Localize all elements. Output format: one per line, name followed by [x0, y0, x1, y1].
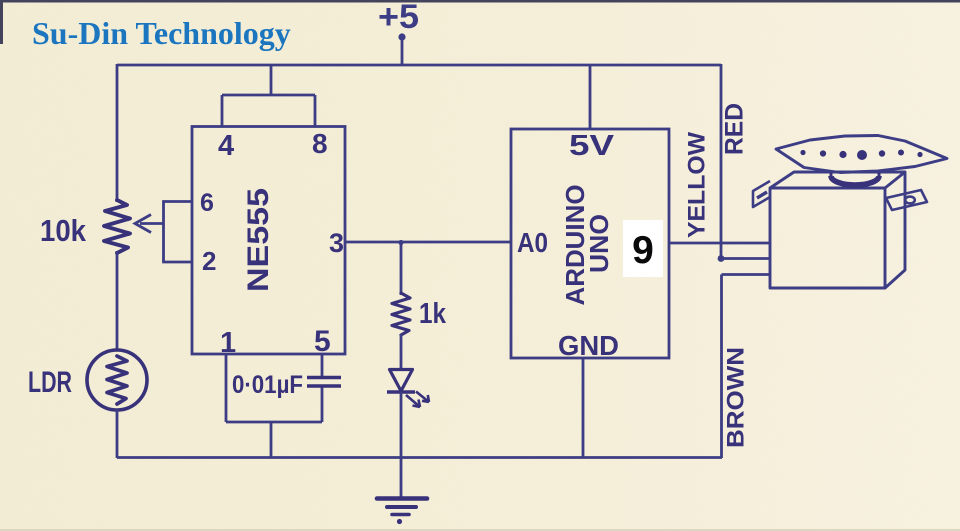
wire pin 1 and pin 5 to capacitor	[226, 354, 322, 422]
wire RED +5 drop	[721, 64, 771, 259]
svg-text:10k: 10k	[40, 213, 87, 248]
servo horn holes	[800, 150, 922, 161]
svg-text:YELLOW: YELLOW	[683, 132, 710, 238]
potentiometer 10k	[104, 200, 130, 253]
svg-text:+5: +5	[378, 0, 419, 36]
svg-text:5V: 5V	[569, 130, 615, 162]
svg-text:LDR: LDR	[28, 366, 72, 399]
servo mounting tab right	[886, 190, 927, 210]
wire pin 3 to A0	[345, 241, 511, 244]
servo mounting tab left	[753, 181, 770, 207]
Arduino Uno box	[511, 129, 669, 358]
LDR	[87, 350, 147, 410]
wire 5V feed	[589, 65, 592, 129]
wire bottom ground rail	[117, 456, 722, 459]
svg-text:0·01µF: 0·01µF	[232, 371, 303, 399]
wire left rail upper segment	[116, 64, 119, 202]
resistor 1k	[392, 293, 410, 335]
svg-text:A0: A0	[517, 227, 548, 258]
svg-text:RED: RED	[721, 103, 749, 155]
svg-text:1: 1	[220, 327, 236, 359]
svg-text:GND: GND	[558, 330, 619, 361]
wire 1k branch upper	[400, 242, 403, 295]
svg-text:4: 4	[218, 130, 234, 162]
svg-text:BROWN: BROWN	[722, 347, 749, 448]
wire BROWN ground riser	[722, 275, 772, 459]
wire left rail lower segment	[116, 409, 119, 458]
wire resistor to LED	[400, 334, 403, 369]
svg-text:2: 2	[202, 246, 216, 276]
wire capacitor to ground rail	[270, 422, 273, 458]
svg-text:Su-Din Technology: Su-Din Technology	[32, 15, 291, 51]
wire left rail middle segment	[116, 251, 119, 351]
capacitor C1	[307, 378, 341, 387]
svg-text:1k: 1k	[419, 298, 447, 330]
IC U1 NE555 box	[192, 127, 345, 355]
wire top +5 rail	[117, 64, 721, 67]
LED D1	[387, 370, 429, 408]
svg-text:6: 6	[200, 189, 214, 217]
svg-text:5: 5	[314, 325, 331, 358]
svg-text:3: 3	[329, 228, 344, 258]
svg-text:UNO: UNO	[584, 214, 614, 273]
svg-text:8: 8	[312, 128, 328, 159]
svg-text:NE555: NE555	[242, 188, 275, 292]
wire ground stub	[400, 457, 403, 498]
pin 9 label box	[623, 220, 663, 277]
wire supply to pins 4 and 8	[222, 65, 315, 127]
wire wiper arrow and pins 6-2 bracket	[135, 202, 191, 263]
wire pin 9 to servo signal	[669, 242, 771, 245]
servo horn	[776, 136, 947, 173]
svg-text:9: 9	[632, 229, 654, 272]
wire LED to ground rail	[400, 392, 403, 458]
servo shaft hub	[831, 170, 879, 185]
servo motor body	[770, 172, 905, 288]
ground symbol	[377, 499, 427, 525]
wire +5 stub	[398, 33, 405, 65]
wire Arduino GND to ground rail	[582, 358, 585, 458]
